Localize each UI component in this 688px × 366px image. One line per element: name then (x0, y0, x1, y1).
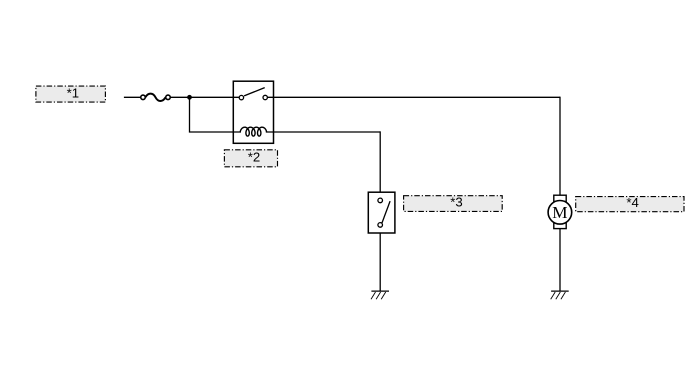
svg-text:*1: *1 (67, 85, 79, 100)
svg-text:M: M (552, 203, 567, 222)
svg-text:*3: *3 (450, 195, 462, 210)
svg-text:*4: *4 (626, 195, 638, 210)
svg-text:*2: *2 (248, 149, 260, 164)
